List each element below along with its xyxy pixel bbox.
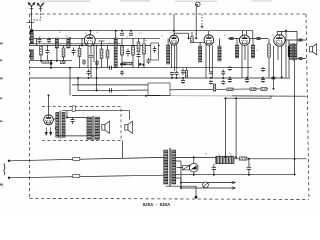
wire [132, 38, 134, 46]
capacitor C9 [126, 49, 130, 57]
wire rail R4 [30, 60, 73, 62]
wire rail R8 [78, 89, 268, 91]
antenna terminal stub [27, 21, 35, 23]
wire [268, 39, 270, 45]
wire [248, 169, 250, 174]
wire return rail [176, 174, 295, 176]
capacitor C2 [47, 37, 51, 43]
coil L4 [67, 38, 70, 48]
junction [285, 30, 287, 32]
mains line lower [9, 175, 164, 178]
wire [191, 32, 193, 37]
series cap rail R5 [110, 66, 112, 70]
speaker LS2 [125, 121, 133, 133]
tube B1 mixer [84, 35, 95, 46]
capacitor C33 [212, 167, 216, 169]
wire B2 k [171, 45, 173, 68]
antenna terminal block [30, 29, 33, 32]
resistor R14 [227, 88, 233, 91]
shield box K2 (bias network) [148, 83, 170, 95]
resistor R15 [250, 88, 256, 91]
junction [176, 77, 178, 79]
wire [50, 61, 52, 63]
junction [193, 156, 195, 158]
wire [213, 169, 215, 174]
aerial dashed lead [201, 14, 203, 28]
junction [294, 174, 296, 176]
resistor R2 [62, 48, 65, 57]
svg-text:50: 50 [96, 32, 98, 34]
resistor R8 [123, 62, 132, 65]
aerial socket lead [195, 6, 197, 38]
resistor R10 [143, 44, 146, 54]
speaker subassembly dashed box [42, 107, 121, 141]
coil L6 IF [167, 45, 170, 64]
svg-text:1n: 1n [161, 36, 163, 38]
series cap rail R8 [110, 88, 112, 92]
wire [236, 39, 238, 46]
fuse plug symbol [203, 182, 209, 188]
svg-text:2.2: 2.2 [224, 35, 226, 37]
junction [273, 88, 275, 90]
capacitor C29 [299, 39, 303, 41]
wire [199, 42, 201, 46]
capacitor C35 blob [50, 62, 53, 65]
chassis border top (dashed) [30, 13, 307, 15]
capacitor C43 [129, 33, 133, 35]
capacitor C41 blob [139, 63, 142, 66]
wire [79, 57, 81, 68]
wire rail R9 faint middle [160, 95, 232, 97]
junction [248, 174, 250, 176]
capacitor C23 [228, 66, 232, 71]
svg-text:620A - 630A: 620A - 630A [143, 202, 171, 207]
chassis border bottom (dashed) [30, 198, 310, 199]
junction [213, 174, 215, 176]
junction [294, 158, 296, 160]
capacitor C21 [230, 38, 234, 40]
tube B6 rectifier [44, 115, 54, 125]
junction [248, 158, 250, 160]
svg-text:0.1: 0.1 [59, 32, 61, 34]
wire [63, 45, 65, 48]
capacitor C22 [257, 38, 261, 40]
wire [81, 38, 83, 45]
capacitor C31 (reservoir, dark) [55, 127, 59, 131]
transformer T4 secondary [172, 150, 176, 184]
transformer T4 primary [164, 150, 168, 184]
capacitor C42 blob [142, 64, 144, 66]
chassis border left (dashed) [29, 14, 31, 199]
junction [171, 77, 173, 79]
wire [177, 167, 183, 169]
junction [56, 60, 58, 62]
capacitor C37 blob [120, 63, 123, 66]
wire [79, 45, 81, 48]
transformer T3 core [93, 116, 94, 141]
capacitor C32 [71, 117, 75, 124]
wire rail grid R2 [33, 37, 160, 39]
wire [248, 159, 250, 168]
wire plate stub B2 to border [173, 14, 175, 35]
junction [235, 97, 237, 99]
wire [40, 55, 42, 61]
fuse F1 [73, 158, 80, 161]
wire [121, 55, 123, 68]
wire riser at 70 [69, 68, 71, 96]
junction [180, 182, 182, 184]
wire rail R2b [190, 41, 214, 43]
junction [246, 77, 248, 79]
junction [224, 156, 226, 158]
resistor R20 (mains dropper) [216, 156, 234, 163]
wire [143, 38, 145, 44]
capacitor C38 blob [124, 63, 126, 65]
wire af bottom link [57, 135, 98, 137]
transformer T3 secondary [95, 117, 100, 139]
wire [107, 58, 109, 68]
resistor R7 [132, 46, 135, 55]
wire [101, 59, 103, 68]
capacitor C19 [221, 69, 225, 76]
junction [222, 77, 224, 79]
svg-text:20: 20 [139, 33, 141, 35]
wire B1 g [90, 45, 92, 54]
antenna A1 [28, 3, 35, 10]
junction [235, 156, 237, 158]
resistor R12 [191, 37, 194, 43]
resistor R9 [137, 42, 140, 52]
coil L10 [251, 45, 254, 58]
dropper taps [219, 155, 231, 157]
wire rail R9 right [232, 95, 307, 97]
capacitor C28 (electrolytic dark) [288, 46, 290, 57]
paper top smudge [40, 0, 272, 1]
junction [121, 30, 123, 32]
capacitor C10 [137, 53, 141, 58]
wire [288, 57, 290, 77]
junction [81, 44, 83, 46]
coil L7 [199, 46, 202, 62]
wire [288, 40, 290, 46]
pilot lamp E1 [190, 163, 199, 172]
svg-text:47: 47 [39, 36, 41, 38]
junction [262, 77, 264, 79]
resistor R16 [261, 88, 267, 91]
wire rail top R1 [32, 30, 253, 32]
wire output B+ drop [294, 60, 296, 175]
wire [143, 54, 145, 68]
wire HT rail b [234, 158, 307, 160]
pickup arrow lower [232, 187, 236, 190]
wire drop HT a [224, 98, 226, 157]
pickup lead upper [181, 182, 235, 184]
wire [219, 39, 221, 47]
wire rail R3 [30, 44, 160, 46]
wire plate corner 297 [296, 31, 298, 44]
wire riser at 78 [77, 78, 79, 91]
wire drop HT b [235, 98, 237, 157]
tube B4 AF [239, 35, 249, 45]
junction [96, 89, 98, 91]
wire B2 g2 [174, 45, 176, 71]
capacitor C7 [95, 60, 99, 66]
wire B5 k [273, 46, 275, 89]
coil L8 [218, 46, 221, 61]
wire rail R5 [30, 67, 253, 69]
junction [90, 30, 92, 32]
wire B5 a [281, 46, 283, 77]
junction [77, 77, 79, 79]
capacitor C27 [261, 78, 265, 83]
junction [182, 77, 184, 79]
svg-text:1.0: 1.0 [256, 50, 258, 52]
wire [66, 111, 68, 118]
wire rail R1b [277, 30, 297, 32]
transformer T1 secondary [294, 44, 297, 60]
choke T2 winding a [56, 112, 59, 137]
aerial socket P1 [196, 2, 201, 7]
wire [138, 59, 140, 68]
junction [195, 37, 197, 39]
wire [252, 39, 254, 46]
wire drop to rectifier [48, 95, 50, 114]
wire rail R6 [30, 77, 291, 79]
capacitor C12 padder [153, 46, 157, 53]
capacitor C14 [175, 70, 179, 76]
capacitor C24 [228, 78, 232, 83]
svg-text:4u: 4u [272, 35, 274, 37]
wire HT rail [176, 156, 216, 158]
junction [69, 67, 71, 69]
wire to speaker a [297, 58, 306, 60]
wire transformer bottom [166, 186, 197, 197]
wire drop box to mains [122, 141, 124, 159]
resistor R3 [78, 49, 81, 57]
junction [115, 30, 117, 32]
wire [99, 40, 105, 42]
wire B1 k [87, 45, 89, 67]
capacitor C13 [170, 72, 174, 76]
paper margin ticks [0, 43, 3, 186]
wire leg 96.6 [96, 45, 98, 90]
junction [50, 67, 52, 69]
mains terminal a [8, 160, 10, 162]
wire B2 screen link [174, 32, 189, 34]
junction [224, 97, 226, 99]
antenna A1 lead wire [31, 10, 33, 30]
antenna A2 lead wire (dashed link) [34, 11, 41, 21]
resistor R1 [40, 47, 43, 56]
wire rail R2c [228, 38, 268, 40]
speaker LS1 [102, 121, 110, 133]
mains line upper [9, 157, 164, 160]
transformer T3 primary [87, 117, 92, 139]
svg-text:0.1: 0.1 [66, 36, 68, 38]
wire B3 a [211, 45, 213, 78]
svg-text:50: 50 [85, 33, 87, 35]
wire field coil link [129, 111, 131, 120]
wire lamp top [193, 157, 195, 163]
wire af-transformer top [67, 116, 88, 118]
wire lamp bottom [193, 172, 195, 175]
wire plate stub B5a [276, 31, 278, 35]
wire [213, 164, 215, 168]
junction [130, 30, 132, 32]
mains squiggle [4, 164, 5, 175]
wire pickup riser [180, 161, 182, 188]
junction [69, 37, 71, 39]
heater arrow a [45, 128, 47, 136]
junction [40, 60, 42, 62]
wire B2 a [176, 45, 178, 70]
capacitor C25 [245, 78, 249, 83]
wire B1 a [93, 45, 95, 62]
wire plate stub B4a [242, 31, 244, 35]
wire link 271 [270, 96, 272, 98]
capacitor C17 [209, 72, 213, 74]
svg-text:1.5: 1.5 [169, 33, 171, 35]
svg-text:1n: 1n [109, 43, 111, 45]
svg-text:60: 60 [229, 153, 231, 155]
wire [188, 33, 190, 38]
junction [66, 116, 68, 118]
junction [180, 187, 182, 189]
resistor R11 [185, 71, 187, 78]
svg-text:62: 62 [205, 154, 207, 156]
capacitor C3 [46, 49, 50, 55]
coil L1 [30, 33, 33, 43]
choke T2 core [60, 111, 61, 139]
resistor R23 [61, 61, 66, 64]
junction [229, 77, 231, 79]
wire B4 a [247, 45, 249, 77]
wire osc top [115, 31, 117, 38]
wire B3 g [209, 45, 211, 71]
wire [56, 48, 58, 61]
coil L5 oscillator [114, 38, 117, 68]
wire plate stub B3 [208, 31, 210, 35]
heater arrow b [50, 128, 52, 136]
wire [186, 68, 188, 71]
transformer T1 primary [290, 44, 293, 60]
wire [63, 57, 65, 61]
capacitor C36 [87, 69, 91, 76]
wire [180, 178, 182, 188]
wire [138, 38, 140, 42]
chassis ground dot [195, 196, 198, 199]
wire plate stub B4b [246, 31, 248, 35]
capacitor C1 [38, 37, 42, 43]
wire corner 252.8 [252, 31, 254, 39]
chassis border right (dashed) [306, 14, 309, 199]
resistor R22 [42, 61, 49, 64]
junction [50, 60, 52, 62]
svg-text:b2: b2 [126, 36, 128, 38]
tube B2 IF amp [170, 35, 179, 45]
wire [69, 38, 71, 45]
thermal switch S1 [183, 165, 190, 170]
wire plate stub B5b [281, 31, 283, 35]
capacitor C30 [299, 58, 303, 60]
resistor R4 [100, 49, 103, 59]
shield box K1 [151, 43, 159, 60]
wire rectifier to choke [53, 118, 56, 120]
junction [63, 60, 65, 62]
wire [90, 58, 92, 78]
resistor R21 [239, 157, 247, 160]
junction [193, 174, 195, 176]
wire B3 k [205, 45, 207, 78]
junction [96, 77, 98, 79]
junction [188, 37, 190, 39]
resistor R17 [268, 44, 271, 57]
aerial dashed lead arrow [201, 26, 203, 29]
capacitor C15 [181, 68, 185, 75]
transformer T4 core [169, 148, 170, 186]
wire T4 tap b [176, 177, 181, 179]
junction on R9 [145, 95, 147, 97]
capacitor C40 [272, 77, 276, 79]
wire [47, 45, 49, 48]
capacitor C18 [209, 80, 213, 85]
wire B5 g [277, 46, 279, 60]
wire [101, 41, 103, 49]
coil L3 [55, 38, 58, 48]
resistor R5 [106, 50, 109, 58]
capacitor C8 [120, 33, 124, 35]
choke T2 winding b [62, 112, 65, 137]
capacitor C11 [147, 58, 151, 64]
junction [281, 76, 283, 78]
capacitor C26 [261, 67, 265, 72]
wire rail R7 [72, 84, 148, 86]
antenna A2 [37, 3, 44, 10]
wire B4 g [244, 45, 246, 60]
mains terminal b [8, 177, 10, 179]
junction [88, 77, 90, 79]
wire plate stub B1 [90, 31, 92, 36]
wire B4 k [241, 45, 243, 77]
transformer T1 core [292, 43, 295, 61]
junction [48, 94, 50, 96]
wire [107, 45, 109, 50]
wire [268, 57, 270, 77]
wire [121, 38, 123, 46]
tube B5 output [274, 35, 285, 46]
resistor R19 [72, 106, 75, 111]
wire [47, 55, 49, 61]
pickup arrow upper [232, 181, 236, 184]
coil L2 [30, 50, 33, 60]
wire screen riser [285, 31, 287, 77]
capacitor C20 [221, 80, 225, 85]
capacitor C5 [82, 59, 86, 65]
wire [50, 65, 52, 68]
fuse F2 [73, 175, 80, 178]
svg-text:osc: osc [145, 40, 148, 42]
resistor R6 [121, 46, 124, 55]
pickup lead lower [181, 187, 235, 189]
capacitor C34 [247, 167, 251, 169]
wire T4 tap a [176, 160, 181, 162]
wire [167, 38, 169, 45]
junction [96, 67, 98, 69]
wire choke top link [62, 110, 130, 112]
capacitor C16 [181, 79, 185, 84]
capacitor C4 [72, 48, 76, 56]
junction [210, 77, 212, 79]
